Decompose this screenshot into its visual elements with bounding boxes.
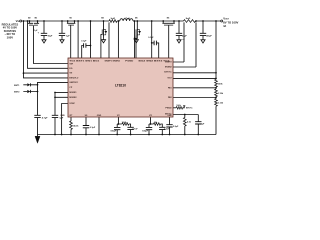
svg-text:EN/UVLO: EN/UVLO (69, 77, 78, 79)
node junction v1 (23, 72, 25, 74)
wire MODE2 strap (55, 93, 68, 116)
node junction FB2 (215, 97, 217, 99)
resistor R9 15.8k (122, 123, 129, 126)
svg-text:MODE2: MODE2 (69, 97, 77, 99)
wire SNSN2 sense line (173, 22, 196, 67)
wire BG1 gate to IC (101, 35, 102, 58)
wire VOUT pin to divider (173, 77, 216, 79)
resistor R2 8mOhm output sense (184, 20, 196, 23)
transistor M1 switch A (68, 21, 75, 23)
svg-text:VC1: VC1 (117, 115, 120, 117)
ground switch B source (103, 36, 105, 39)
node junction SW2 source (134, 38, 136, 40)
svg-text:VC2: VC2 (149, 115, 152, 117)
wire SYNC to ground (62, 104, 68, 135)
wire GATEVCC (38, 82, 69, 115)
svg-text:M6: M6 (167, 18, 170, 20)
wire SNSP2 sense line (173, 22, 184, 62)
wire switch C source (135, 36, 138, 38)
capacitor C3 BST1 0.1uF (86, 45, 90, 47)
wire TG1 gate to IC (70, 25, 72, 58)
transistor M4 switch B (103, 21, 105, 29)
svg-text:M2: M2 (28, 18, 31, 20)
node dot SW2-b (151, 20, 153, 22)
svg-text:4.7µF: 4.7µF (42, 116, 48, 119)
wire divider vertical (215, 21, 217, 135)
node dot rail-v1 (23, 20, 25, 22)
svg-text:2.2nF: 2.2nF (164, 129, 170, 131)
svg-text:VIN: VIN (69, 73, 72, 75)
resistor R5 1.13k (215, 99, 218, 107)
node junction intvcc-r (184, 114, 186, 116)
node junction div-72 (215, 72, 217, 74)
capacitor C4 BST2 0.1uF (152, 42, 154, 44)
wire SW2 sense to IC (151, 21, 153, 58)
node junction D2 (37, 91, 39, 93)
svg-text:EXTVCC: EXTVCC (164, 72, 171, 74)
wire SW2 to IC (134, 21, 136, 58)
transistor M5 switch C (136, 21, 138, 29)
svg-text:10µF: 10µF (48, 35, 54, 37)
svg-text:PWGD: PWGD (165, 108, 172, 110)
svg-text:100pF: 100pF (142, 131, 149, 133)
svg-text:SYNC: SYNC (69, 103, 75, 105)
ground main (37, 135, 39, 137)
svg-text:PGND: PGND (125, 61, 134, 63)
node junction BST2 tap (151, 42, 153, 44)
wire SNSN1 to IC (117, 21, 119, 58)
wire SW1 sense to IC (90, 21, 92, 58)
svg-text:MODE1: MODE1 (69, 92, 77, 94)
capacitor C8 2.2uF bypass (169, 117, 171, 125)
svg-text:100µF: 100µF (206, 35, 213, 37)
capacitor C15 2.2nF (159, 127, 165, 129)
svg-text:0.1µF: 0.1µF (90, 127, 96, 129)
svg-text:0.1µF: 0.1µF (148, 37, 154, 39)
svg-text:0.1µF: 0.1µF (81, 40, 87, 42)
svg-text:15.8k: 15.8k (122, 122, 128, 124)
resistor R6 100k PWGD pull-up (176, 107, 182, 110)
wire GND pin stub (98, 117, 100, 135)
svg-text:GND: GND (60, 115, 65, 117)
svg-text:100V: 100V (7, 36, 14, 39)
node junction BST1 tap (90, 45, 92, 47)
capacitor C12 100pF (116, 124, 118, 127)
capacitor C5 output 22uF x2 (178, 21, 180, 33)
resistor R4 1.15k (215, 89, 218, 97)
capacitor C14 100pF (148, 124, 150, 127)
wire FB2 tap (173, 97, 216, 99)
node dot SW1-a (77, 20, 79, 22)
svg-text:SNSP2: SNSP2 (165, 62, 172, 64)
node dot post-sense out (195, 20, 197, 22)
node junction VC1 (118, 123, 120, 125)
capacitor C7 1uF (197, 115, 199, 122)
svg-text:BST2: BST2 (14, 92, 20, 94)
wire MODE1 strap (55, 92, 68, 94)
wire SW1 to IC (77, 21, 79, 58)
svg-text:8V TO 100V: 8V TO 100V (223, 23, 239, 25)
svg-text:DG: DG (69, 68, 72, 70)
node dot SW2-a (134, 20, 136, 22)
node dot divider top (215, 20, 217, 22)
node dot rail capA (178, 20, 180, 22)
op-amp U1 LT8210 controller (68, 58, 173, 117)
capacitor C11 SS 0.1uF (85, 117, 87, 125)
wire SNSP1 to IC (108, 22, 110, 58)
svg-text:VINP: VINP (69, 63, 73, 65)
wire ground bus (38, 134, 217, 136)
node dot rail-v2 (27, 20, 29, 22)
svg-text:1.13k: 1.13k (218, 103, 224, 105)
svg-text:M3: M3 (35, 18, 38, 20)
capacitor C1 input 10uF (43, 21, 45, 33)
svg-text:100pF: 100pF (110, 131, 117, 133)
wire pre-FET node to IC DG pin row (28, 21, 69, 68)
node junction FB1 (215, 87, 217, 89)
wire VIN top rail (22, 20, 221, 22)
svg-text:2.2µF: 2.2µF (173, 126, 179, 128)
node dot rail cap1 (43, 20, 45, 22)
node VIN input terminal (20, 20, 22, 22)
node junction VC2 (150, 123, 152, 125)
capacitor C6 output 100uF (202, 21, 204, 33)
resistor R1 3mOhm input sense (109, 20, 117, 23)
svg-text:22µF: 22µF (182, 35, 188, 37)
svg-text:4.7nF: 4.7nF (132, 128, 138, 131)
transistor M6 switch D (163, 21, 174, 23)
svg-text:INTVCC: INTVCC (186, 107, 193, 109)
node bus junctions (54, 134, 56, 136)
resistor R8 45.3k RT (70, 117, 72, 135)
resistor R10 10k (154, 123, 161, 126)
svg-text:1.15k: 1.15k (218, 93, 224, 95)
wire FB1 tap (173, 87, 216, 89)
transistor M2 M3 back-to-back protection NFETs (30, 21, 38, 23)
node junction mode (54, 92, 56, 94)
capacitor C10 1uF (52, 115, 58, 117)
node VOUT output terminal (221, 20, 223, 22)
svg-text:SNSP1 SNSN1: SNSP1 SNSN1 (105, 61, 121, 63)
node junction D1 (37, 84, 39, 86)
resistor R7 5.1k (183, 118, 186, 126)
svg-text:M5: M5 (135, 18, 138, 20)
svg-text:4.7µH: 4.7µH (124, 17, 130, 20)
svg-text:TG1 BST1 SW1 BG1: TG1 BST1 SW1 BG1 (69, 61, 100, 63)
svg-text:LT8210: LT8210 (115, 83, 126, 87)
power INTVCC rail symbol (183, 106, 186, 108)
wire PWGD (173, 107, 176, 109)
svg-text:3mΩ: 3mΩ (111, 18, 116, 20)
svg-text:3A: 3A (223, 25, 226, 28)
node dot rail cap2 (61, 20, 63, 22)
node dot post-sense (118, 20, 120, 22)
capacitor C13 4.7nF (127, 127, 133, 129)
resistor R3 100k (215, 79, 218, 87)
node dot rail capB (202, 20, 204, 22)
wire VC2 stub (149, 117, 154, 124)
wire EXTVCC to VOUT (173, 72, 216, 74)
ground switch C source (135, 39, 137, 40)
capacitor C2 input 1uF (61, 21, 63, 33)
svg-text:M4: M4 (101, 17, 104, 20)
svg-text:GND: GND (167, 115, 172, 117)
capacitor C9 GATEVCC 4.7uF (34, 115, 40, 117)
node junction div-78 (215, 78, 217, 80)
svg-text:VOUT: VOUT (167, 78, 171, 80)
svg-text:M1: M1 (70, 18, 73, 20)
wire DG gate line to IC (34, 25, 69, 63)
svg-text:BST1: BST1 (14, 85, 20, 87)
svg-text:45.3k: 45.3k (73, 124, 79, 127)
wire INTVCC (173, 114, 198, 116)
wire VIN sense to IC VIN/EN pins (24, 21, 69, 78)
inductor L1 4.7uH (120, 19, 133, 21)
node dot SW1-b (90, 20, 92, 22)
wire BG2 gate to IC (135, 35, 137, 58)
svg-text:SNSN2: SNSN2 (165, 67, 173, 69)
svg-text:GND: GND (97, 115, 102, 117)
svg-text:8mΩ: 8mΩ (186, 18, 191, 20)
wire VC1 stub (117, 117, 122, 124)
wire TG2 gate to IC (168, 25, 170, 58)
